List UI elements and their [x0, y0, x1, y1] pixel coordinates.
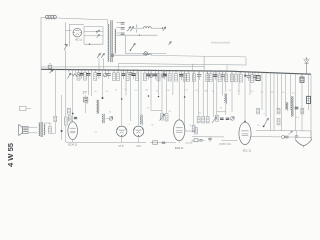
node bus junction 2319	[231, 71, 233, 73]
node bus junction 1620	[161, 70, 163, 72]
resistor R-out	[48, 127, 51, 133]
label value 29	[129, 124, 131, 126]
wire vertical x302	[301, 74, 303, 131]
tube V3 EF11	[133, 126, 143, 136]
label value 14	[250, 91, 254, 93]
wire 85 down	[85, 95, 87, 113]
oscillator coil L4a	[286, 102, 288, 111]
node bus junction 1336	[133, 69, 135, 71]
node bus junction 2523	[252, 71, 254, 73]
label value 9	[195, 90, 199, 92]
wire 61 vert	[61, 95, 63, 140]
output transformer secondary	[44, 124, 45, 135]
wire mid 137 left	[192, 136, 224, 138]
label value 16	[270, 92, 273, 94]
wire L3 hline	[217, 111, 226, 113]
wire riser 246	[245, 58, 247, 65]
wire mains left vertical	[40, 17, 42, 68]
wire under V5 left	[222, 139, 238, 141]
node x148 top	[148, 95, 150, 97]
label value 1	[105, 91, 109, 93]
label value 13	[237, 91, 240, 93]
wire tap C	[116, 32, 120, 34]
resistor R196	[195, 128, 198, 135]
wire left vert 41 lower	[40, 69, 42, 123]
wire tap mid long	[116, 34, 157, 36]
tube V2 EBF11	[117, 126, 127, 136]
wire to rectifier anode	[69, 24, 84, 46]
capacitor C-gnd	[295, 131, 298, 138]
node heater junction	[89, 31, 98, 45]
resistor R226	[225, 71, 228, 81]
wire speaker top	[28, 126, 37, 128]
label value 3	[124, 89, 127, 91]
switch S-right	[263, 118, 269, 127]
wire mains tick	[66, 30, 72, 32]
wire vertical x270	[270, 73, 272, 131]
capacitor C108	[107, 70, 111, 79]
transformer T-mains secondary winding	[115, 29, 116, 53]
antenna symbol	[304, 58, 310, 75]
svg-text:4 W 55: 4 W 55	[6, 142, 15, 167]
resistor R-k above V1	[68, 116, 71, 121]
wire L2 link	[151, 109, 162, 111]
node bus junction 1633	[163, 70, 165, 72]
svg-text:EFM 11: EFM 11	[175, 147, 184, 150]
wire vertical x308	[308, 74, 310, 110]
wire vertical x141	[140, 70, 142, 115]
oscillator coil L4b	[291, 96, 293, 116]
resistor R78	[77, 70, 80, 80]
node tap mid	[139, 35, 140, 36]
wire drop 91	[90, 70, 92, 96]
title label 4 W 55	[6, 142, 15, 167]
label value 12	[228, 90, 232, 92]
resistor R240	[239, 72, 242, 82]
label value 26	[296, 117, 300, 119]
wire tap A	[116, 21, 120, 23]
wire vertical x274	[273, 73, 275, 131]
wire AVC riser	[203, 56, 205, 72]
trimmer CT151	[149, 70, 153, 77]
label value 0	[94, 91, 97, 93]
node bus junction 1276	[127, 69, 129, 71]
label V3	[137, 145, 141, 148]
capacitor C-v5g	[208, 137, 211, 142]
lamp scale	[144, 52, 148, 56]
resistor R74 (zigzag)	[72, 70, 80, 77]
resistor R216	[215, 115, 218, 121]
svg-text:27: 27	[82, 90, 86, 94]
node bus junction 1815	[181, 70, 183, 72]
resistor R277	[277, 108, 280, 114]
resistor R231	[230, 71, 233, 81]
trimmer CT105	[103, 70, 107, 77]
node bus junction 740	[73, 69, 75, 71]
label value 28	[94, 132, 98, 134]
label value 24	[220, 108, 223, 110]
svg-text:1M: 1M	[145, 90, 148, 92]
node bus junction 1180	[117, 69, 119, 71]
wire heater top	[84, 26, 103, 28]
label value 4	[134, 90, 138, 92]
label value 18	[292, 93, 296, 95]
capacitor C-el308	[307, 96, 311, 103]
node bus junction 953	[95, 69, 97, 71]
resistor R166	[165, 114, 168, 122]
node bus junction 2152	[214, 70, 216, 72]
IF coil L1b	[102, 114, 104, 123]
wire vertical x72	[72, 70, 74, 122]
capacitor C-tap1	[121, 23, 125, 25]
node bus junction 1882	[187, 70, 189, 72]
wire mains top	[41, 17, 108, 20]
wave switch arrow	[160, 114, 165, 121]
wire vertical x250	[249, 72, 251, 95]
wire L3 down	[225, 104, 227, 115]
resistor R219	[218, 71, 221, 81]
capacitor C181	[179, 71, 183, 80]
label Netzanschluss	[211, 41, 230, 45]
svg-text:(Netzanschluß): (Netzanschluß)	[211, 41, 230, 45]
node bus junction 2408	[240, 71, 242, 73]
svg-text:AZ 11: AZ 11	[75, 38, 82, 42]
resistor R144	[143, 70, 146, 80]
node bus junction 850	[84, 69, 86, 71]
node bus junction 2486	[248, 71, 250, 73]
label 27	[82, 90, 86, 94]
node bus junction 1585	[158, 70, 160, 72]
wire V3 bottom stub	[138, 136, 140, 143]
node bus junction 1485	[148, 70, 150, 72]
wire vertical x193	[193, 71, 195, 125]
wire right chain	[250, 136, 311, 139]
switch S68	[67, 70, 70, 79]
switch S-bus	[49, 69, 53, 73]
wire trimmer link	[106, 117, 110, 119]
label value 01	[49, 123, 53, 125]
wire V1 bottom stub	[72, 140, 74, 143]
tube V4 EFM11	[174, 118, 185, 140]
resistor R-bot1	[153, 141, 158, 144]
capacitor C258 (block)	[256, 72, 260, 80]
node bus junction 1140	[113, 69, 115, 71]
node bus junction 2196	[219, 70, 221, 72]
node 61	[61, 130, 63, 132]
choke L-mains on top edge	[46, 15, 57, 20]
resistor R207	[206, 71, 209, 81]
capacitor C155	[153, 70, 157, 79]
label AZ11	[75, 38, 82, 42]
node bus junction 1992	[198, 70, 200, 72]
wire drop 166	[166, 71, 168, 113]
label value 23	[199, 113, 202, 115]
node bus junction 1846	[184, 70, 186, 72]
wire riser 227	[226, 65, 228, 71]
wire vertical x121	[121, 70, 123, 125]
wire out bottom link	[50, 132, 55, 134]
capacitor C215	[213, 71, 217, 80]
label value 5	[145, 90, 148, 92]
choke on AVC line	[144, 54, 152, 55]
resistor R169	[168, 71, 171, 81]
ground right	[295, 131, 311, 148]
wire AVC line right	[151, 55, 246, 57]
resistor R302b	[301, 108, 304, 114]
capacitor C-g1 above V1	[74, 117, 77, 118]
svg-text:4W55 GW: 4W55 GW	[219, 142, 232, 146]
resistor R137	[136, 70, 139, 80]
switch S-gram	[130, 43, 136, 51]
node bus junction 785	[78, 69, 80, 71]
resistor R193	[192, 125, 195, 132]
resistor R55	[54, 116, 57, 121]
resistor R-mid131	[185, 130, 196, 132]
node bus junction 990	[98, 69, 100, 71]
resistor R236	[235, 71, 238, 81]
speaker magnet	[22, 127, 28, 134]
node bus junction 2108	[210, 70, 212, 72]
label value 19	[86, 103, 89, 105]
capacitor C-right chain	[282, 136, 289, 139]
wire vertical x277	[277, 73, 279, 110]
resistor R278b	[277, 118, 280, 125]
node L1a top	[102, 97, 104, 99]
wire main HT bus	[41, 69, 311, 74]
node x158 top	[158, 96, 160, 98]
wire vertical x138	[138, 70, 140, 125]
capacitor C-tap3	[121, 33, 125, 35]
wire vertical x262	[261, 72, 263, 110]
capacitor C164	[163, 71, 167, 80]
svg-text:27 P: 27 P	[119, 145, 124, 148]
node bus junction 1449	[144, 70, 146, 72]
capacitor C88	[86, 70, 90, 79]
IF coil L3	[224, 93, 226, 104]
wire vertical x203	[202, 71, 204, 117]
wire vertical x213	[213, 71, 215, 117]
wire out link	[44, 123, 50, 127]
node bus junction 1939	[193, 70, 195, 72]
resistor R193	[192, 71, 195, 81]
capacitor C133	[132, 70, 136, 79]
choke L-scale lamp	[144, 27, 152, 29]
capacitor C199	[197, 71, 201, 80]
node bus-left	[65, 69, 67, 71]
node bus junction 3020	[301, 73, 303, 75]
wire left vert 55	[54, 69, 56, 116]
resistor R-v5in	[192, 139, 198, 142]
resistor R207	[206, 117, 209, 123]
heater arrow 2	[97, 34, 100, 38]
capacitor C-tap2	[121, 28, 125, 30]
wire vertical x295	[295, 74, 297, 131]
switch band arrows	[97, 53, 104, 70]
wire tap B	[116, 27, 120, 29]
resistor R65	[64, 117, 67, 125]
node bus junction 883	[88, 69, 90, 71]
node bus junction 817	[81, 69, 83, 71]
label V4	[175, 147, 184, 150]
node bus junction 1053	[105, 69, 107, 71]
capacitor C255	[253, 72, 257, 81]
voltage selector arrows	[127, 26, 133, 31]
node bus junction 1696	[169, 70, 171, 72]
capacitor C222	[221, 71, 225, 80]
resistor R210	[209, 71, 212, 81]
mech link dashes	[136, 25, 138, 33]
tube V5 ECL11	[239, 121, 251, 145]
label value 20	[109, 112, 112, 114]
resistor R198	[197, 117, 200, 123]
wire vertical x88	[87, 70, 89, 95]
node bus junction 2581	[257, 71, 259, 73]
wire switch branch vertical	[65, 23, 67, 69]
capacitor C-osc	[295, 107, 299, 109]
transformer T-mains core	[111, 20, 112, 62]
label value 21	[147, 108, 150, 110]
label value 11	[212, 91, 215, 93]
transformer T-mains primary winding	[108, 24, 109, 62]
capacitor C-85 block	[84, 97, 88, 102]
resistor R203	[202, 117, 205, 123]
resistor R-g1 above V1	[68, 108, 71, 114]
node V1 stem	[72, 113, 74, 115]
capacitor C248	[247, 72, 251, 81]
IF coil L1a	[97, 100, 99, 114]
label chassis code	[219, 142, 232, 146]
node x121 grid	[121, 98, 123, 100]
wire bottom bus left	[66, 141, 146, 143]
wire vertical x245	[244, 72, 246, 122]
resistor R85	[84, 70, 87, 80]
node bus junction 2360	[235, 71, 237, 73]
wire AVC line upper	[115, 54, 144, 56]
speaker cone	[19, 125, 23, 136]
node bus junction 1372	[136, 70, 138, 72]
resistor R114	[113, 70, 116, 80]
heater arrow 1	[97, 30, 100, 34]
node bus junction 1553	[155, 70, 157, 72]
capacitor C148	[146, 70, 150, 79]
label V2	[119, 145, 124, 148]
label value 17	[282, 92, 285, 94]
capacitor C-v5in	[198, 140, 205, 141]
wire heater mid2	[84, 35, 103, 37]
node bus junction 1665	[166, 70, 168, 72]
resistor R127	[126, 70, 129, 80]
wire vertical x216	[216, 71, 218, 115]
wire transformer top tap	[107, 20, 109, 24]
wire vertical x184	[184, 71, 186, 131]
wire lamp feed	[125, 36, 127, 54]
wire vertical x266	[265, 73, 267, 118]
label V5	[243, 149, 252, 152]
wire drop 162	[161, 71, 163, 114]
wire 65 lower	[65, 125, 67, 142]
capacitor C-bot	[162, 142, 165, 143]
resistor R118	[117, 70, 120, 80]
switch arrow mid	[212, 117, 217, 123]
resistor R176	[175, 71, 178, 81]
capacitor C-avc in	[111, 54, 115, 57]
wire sub-bus lower	[41, 66, 204, 68]
capacitor C123	[121, 70, 125, 79]
wire vertical x281	[281, 73, 283, 131]
wire vertical x285	[285, 73, 287, 110]
resistor R184	[183, 71, 186, 81]
pickup arrow end	[162, 27, 166, 31]
output transformer primary	[39, 123, 40, 136]
svg-text:ECH 11: ECH 11	[68, 144, 77, 147]
wire V4 bottom stub	[178, 141, 180, 143]
label V1	[68, 144, 77, 147]
label value 31	[189, 125, 192, 127]
trimmer CT163	[161, 71, 165, 78]
wire vertical x65	[65, 70, 67, 118]
wire V2 bottom stub	[121, 136, 123, 142]
label value 15	[261, 92, 264, 94]
node V5 stem	[244, 121, 246, 123]
capacitor C-L3b	[226, 118, 230, 119]
wire heater right	[102, 27, 104, 45]
wire lamp row	[126, 53, 167, 55]
label value 32	[257, 125, 260, 127]
svg-text:1M: 1M	[204, 91, 207, 93]
node bus junction 1512	[150, 70, 152, 72]
capacitor C81	[80, 70, 84, 79]
svg-text:2M: 2M	[270, 92, 273, 94]
node bus junction 2550	[254, 71, 256, 73]
ground arrow right	[289, 131, 293, 135]
label value 22	[168, 111, 172, 113]
output transformer core	[41, 122, 42, 137]
node bus junction 1760	[175, 70, 177, 72]
wire vertical x207	[207, 71, 209, 117]
wire riser 118	[118, 63, 120, 70]
wire vertical x239	[238, 72, 240, 96]
resistor R95	[94, 70, 97, 80]
wire selector out	[134, 27, 144, 29]
node bus junction 1233	[123, 69, 125, 71]
node bus junction 689	[68, 69, 70, 71]
node bus junction 1648	[164, 70, 166, 72]
wire vertical x232	[231, 71, 233, 112]
trimmer CT1	[109, 117, 113, 121]
wire vertical x225	[225, 71, 227, 92]
label value 25	[263, 114, 265, 116]
node x184 top	[184, 96, 186, 98]
resistor R252	[251, 72, 254, 82]
wire AVC lower line	[119, 64, 247, 66]
label value 8	[185, 90, 189, 92]
svg-text:ECL 11: ECL 11	[243, 149, 252, 152]
wire vertical x102	[102, 70, 104, 97]
label value 10	[204, 91, 207, 93]
wire speaker bottom	[28, 132, 37, 134]
tube V1 ECH11	[68, 120, 78, 139]
phono jack	[20, 106, 32, 110]
node bus junction 2073	[207, 70, 209, 72]
resistor R258m	[257, 108, 260, 114]
wire vertical x290	[290, 73, 292, 110]
label value 7	[167, 90, 170, 92]
IF coil L2a	[140, 115, 142, 126]
label value 30	[151, 125, 154, 127]
resistor R162	[161, 114, 164, 121]
rectifier tube AZ11	[73, 28, 82, 37]
node bus junction 2452	[244, 71, 246, 73]
